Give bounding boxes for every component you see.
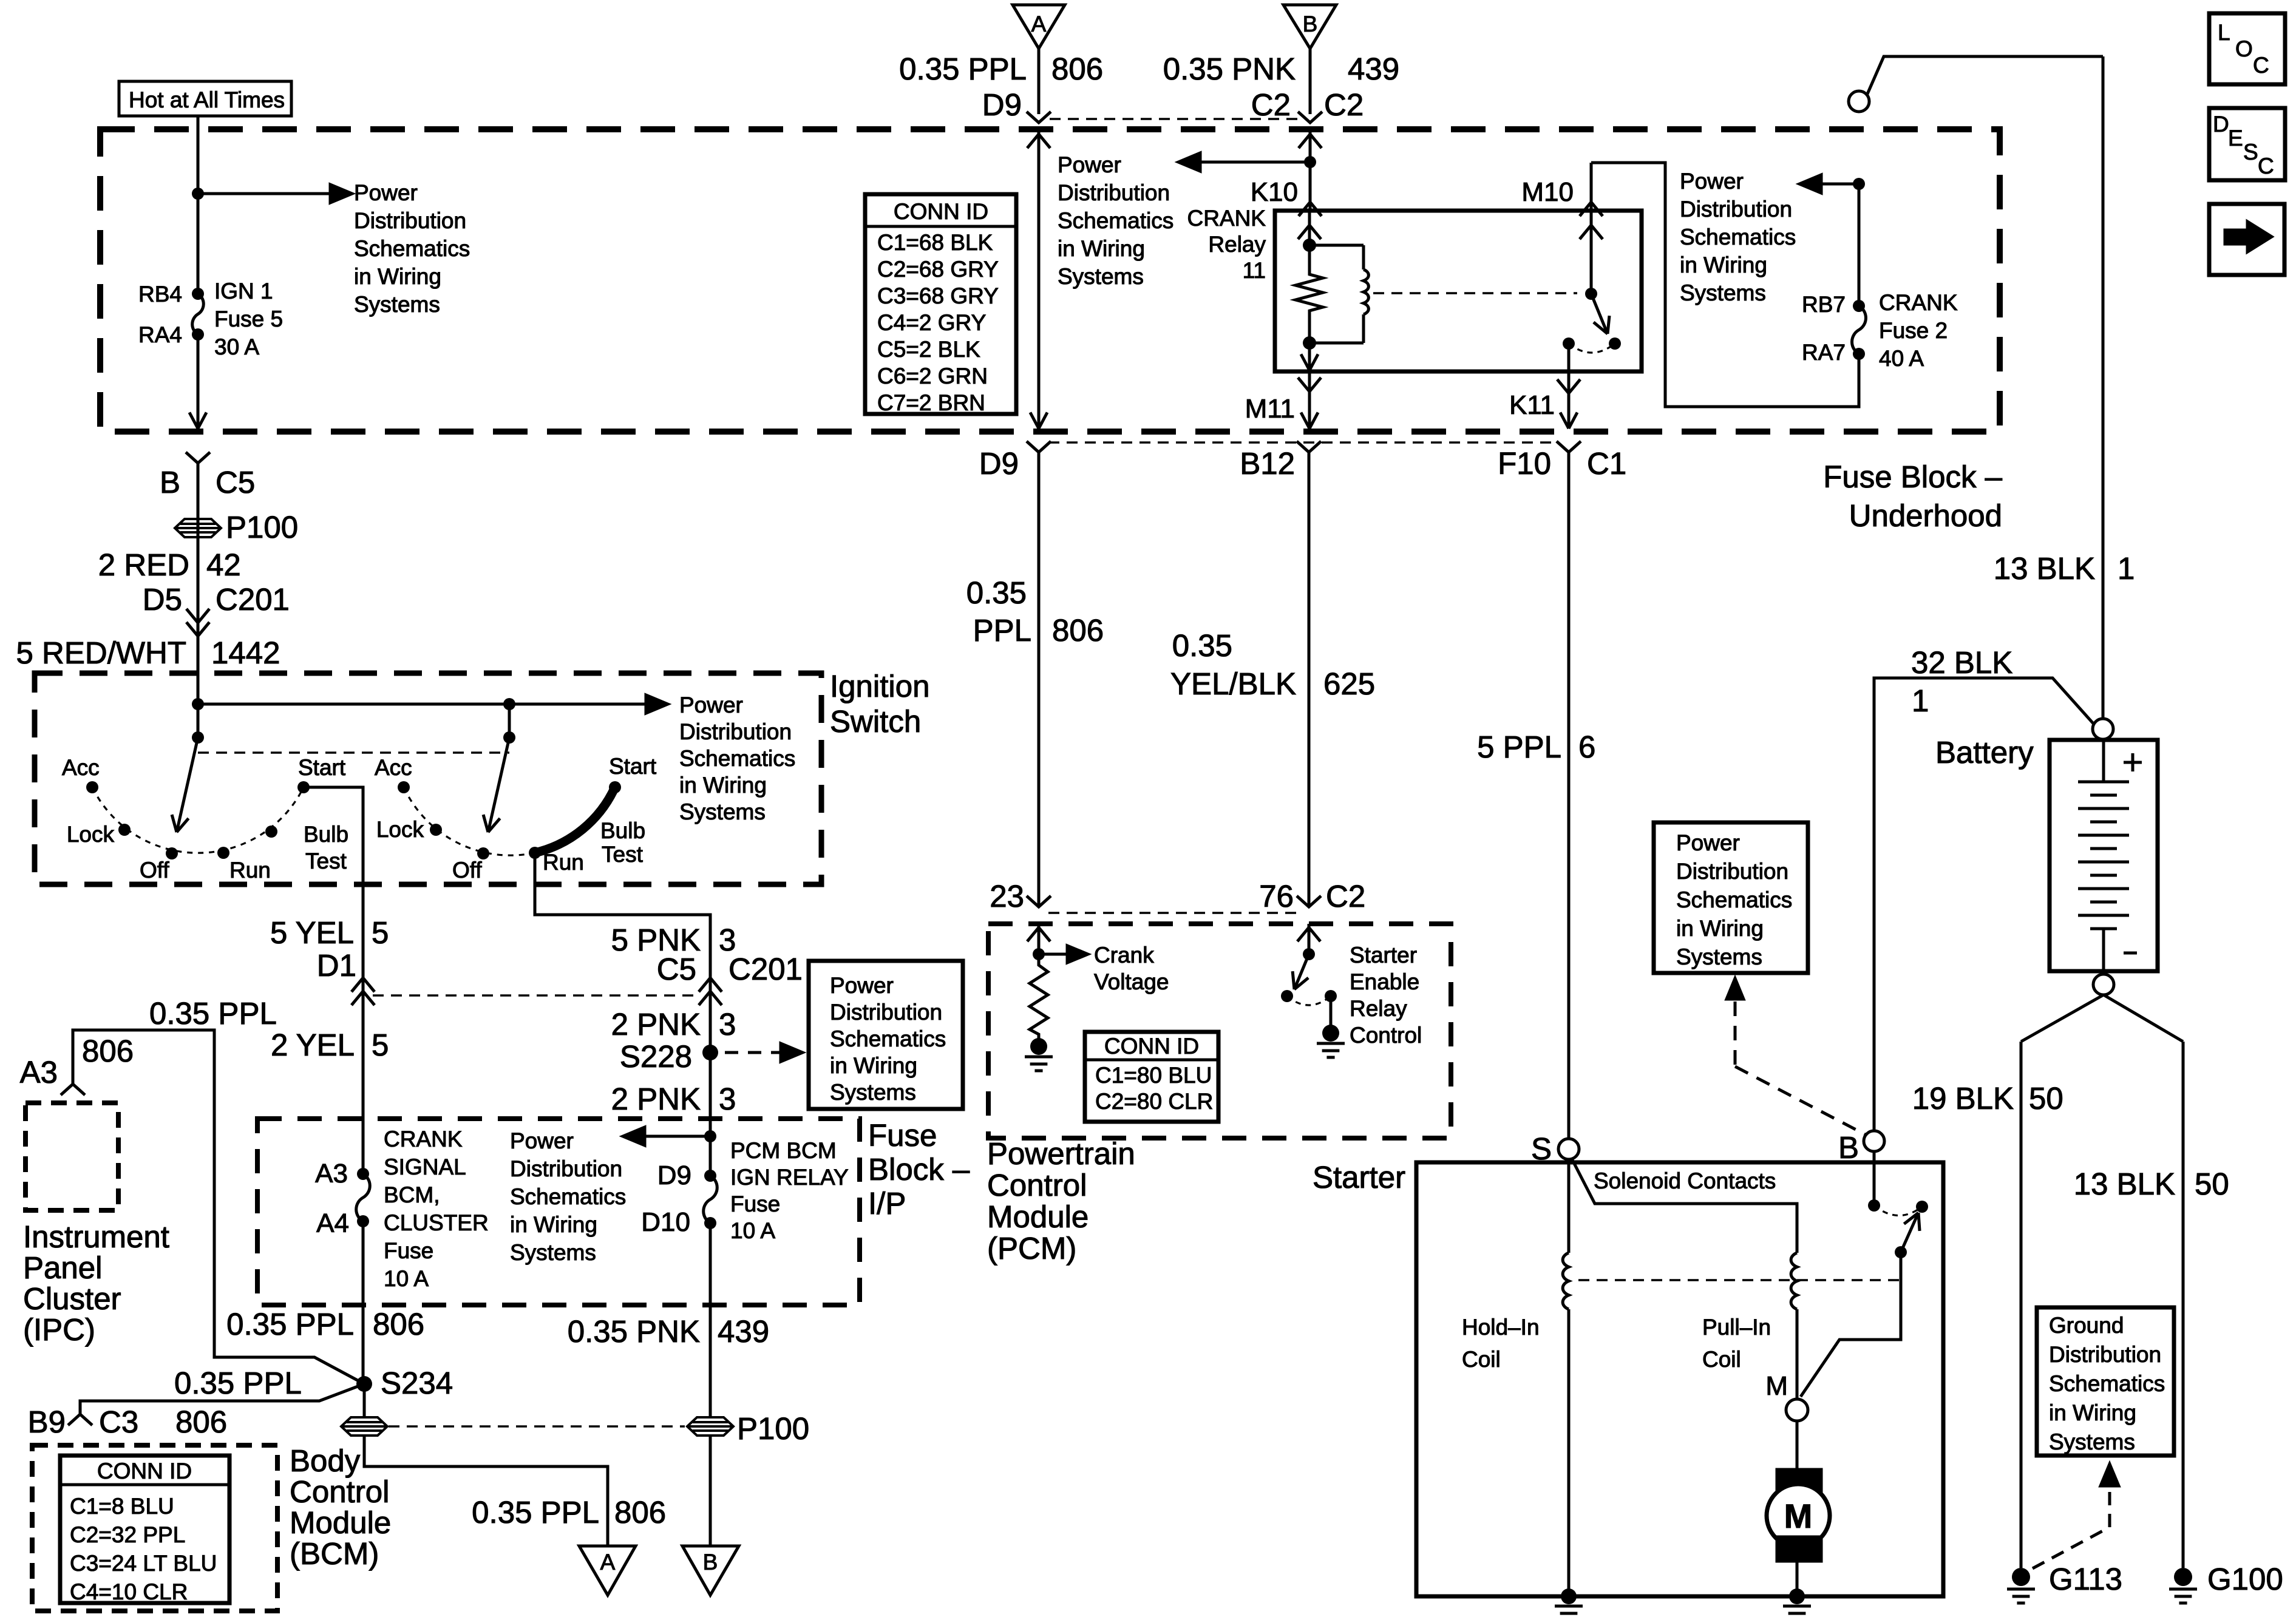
svg-text:CLUSTER: CLUSTER	[384, 1210, 489, 1235]
CONN ID table (underhood fuse block)	[865, 194, 1016, 414]
svg-text:Schematics: Schematics	[510, 1184, 626, 1209]
svg-text:in Wiring: in Wiring	[1680, 253, 1767, 277]
svg-text:5 PPL: 5 PPL	[1477, 730, 1561, 764]
svg-text:Bulb: Bulb	[600, 818, 645, 843]
svg-text:D5: D5	[143, 582, 182, 617]
relay switch pivot + wiper	[1585, 288, 1597, 300]
dashed arrow from S228 to Power Distribution box	[725, 1051, 781, 1054]
ignition switch bank1 contact arc (dashed)	[92, 787, 304, 853]
icon: LOC box	[2209, 13, 2285, 84]
svg-text:S234: S234	[381, 1366, 453, 1400]
svg-text:Powertrain: Powertrain	[987, 1136, 1135, 1171]
svg-text:Start: Start	[609, 754, 657, 779]
junction dot feed rail	[192, 698, 204, 710]
wire: B triangle into fuse block	[1309, 49, 1312, 114]
svg-text:M: M	[1784, 1497, 1813, 1535]
svg-text:C: C	[2253, 53, 2269, 78]
relay coil out wire M11	[1308, 343, 1311, 370]
svg-text:Schematics: Schematics	[1058, 208, 1173, 233]
svg-text:0.35 PNK: 0.35 PNK	[1163, 52, 1296, 86]
svg-text:Fuse: Fuse	[730, 1192, 780, 1216]
svg-text:Relay: Relay	[1208, 232, 1266, 257]
wire: RB7 up to battery feed	[1858, 184, 1861, 306]
svg-text:C3=24 LT BLU: C3=24 LT BLU	[70, 1551, 217, 1576]
svg-text:Hot at All Times: Hot at All Times	[129, 87, 285, 112]
crank voltage junction + arrow	[1033, 948, 1045, 960]
svg-text:RA7: RA7	[1802, 340, 1846, 365]
svg-text:Hold–In: Hold–In	[1462, 1315, 1540, 1340]
svg-text:Power: Power	[830, 973, 894, 998]
mechanical link dashed	[198, 751, 509, 754]
svg-text:B12: B12	[1240, 446, 1295, 481]
svg-text:Bulb: Bulb	[304, 822, 348, 847]
svg-text:13 BLK: 13 BLK	[1994, 551, 2095, 586]
wire: fuse D10 down to P100	[709, 1223, 712, 1417]
IPC pin A3 fork	[61, 1084, 85, 1095]
svg-text:Systems: Systems	[510, 1240, 596, 1265]
wire M10 over to crank fuse	[1591, 163, 1859, 407]
svg-text:11: 11	[1243, 258, 1266, 283]
svg-text:23: 23	[990, 879, 1024, 914]
component box: Ignition Switch (dashed)	[35, 673, 821, 884]
connector C201 dashed link	[373, 994, 698, 997]
svg-text:CONN ID: CONN ID	[894, 199, 988, 224]
svg-text:B9: B9	[28, 1405, 66, 1439]
svg-text:CRANK: CRANK	[384, 1127, 463, 1151]
battery negative terminal	[2093, 974, 2114, 995]
box: Power Distribution Schematics in Wiring Systems (S228)	[809, 961, 963, 1109]
svg-text:50: 50	[2195, 1167, 2229, 1201]
svg-text:Ground: Ground	[2049, 1313, 2124, 1338]
svg-text:Coil: Coil	[1462, 1347, 1501, 1372]
wire to P100	[197, 463, 200, 737]
svg-text:K10: K10	[1251, 177, 1298, 207]
svg-text:Systems: Systems	[679, 799, 766, 824]
svg-text:M11: M11	[1245, 394, 1295, 424]
svg-text:42: 42	[206, 547, 241, 582]
solenoid contact switch	[1873, 1152, 1876, 1205]
svg-text:SIGNAL: SIGNAL	[384, 1154, 466, 1179]
svg-text:A4: A4	[316, 1209, 349, 1238]
svg-text:Lock: Lock	[376, 817, 424, 842]
wire: bank2 Run down and over to PNK column	[535, 853, 710, 1176]
svg-text:806: 806	[1052, 613, 1104, 648]
svg-text:Fuse Block –: Fuse Block –	[1823, 459, 2002, 494]
component box: BCM (dashed)	[32, 1445, 277, 1611]
svg-text:Pull–In: Pull–In	[1702, 1315, 1771, 1340]
svg-text:A: A	[600, 1550, 616, 1575]
svg-text:A3: A3	[315, 1159, 348, 1188]
box label: Hot at All Times	[119, 81, 291, 116]
svg-text:D: D	[2213, 112, 2229, 137]
svg-text:10 A: 10 A	[730, 1218, 775, 1243]
svg-text:2 RED: 2 RED	[98, 547, 189, 582]
PCM internal ground	[1030, 1038, 1047, 1055]
ground G113	[2012, 1568, 2030, 1586]
svg-text:M10: M10	[1521, 177, 1574, 207]
bank2 contacts	[398, 781, 410, 793]
battery plus sign	[2124, 761, 2142, 764]
svg-text:Systems: Systems	[830, 1080, 916, 1105]
wire: F10 to starter S terminal	[1567, 452, 1571, 1139]
svg-text:Distribution: Distribution	[1058, 180, 1170, 205]
svg-text:O: O	[2235, 36, 2253, 61]
wire: battery negative split to grounds	[2021, 995, 2104, 1042]
wire: hot feed into underhood fuse block	[197, 116, 200, 294]
svg-text:Fuse 2: Fuse 2	[1879, 318, 1948, 343]
svg-text:K11: K11	[1509, 390, 1555, 420]
svg-text:C1=68 BLK: C1=68 BLK	[877, 230, 993, 255]
svg-text:1: 1	[1912, 683, 1929, 718]
relay switch output wire K11	[1567, 344, 1571, 371]
component box: CRANK Relay	[1275, 211, 1642, 371]
starter solenoid link dashed	[1578, 1279, 1899, 1281]
svg-text:0.35 PPL: 0.35 PPL	[899, 52, 1027, 86]
svg-text:C201: C201	[729, 952, 803, 986]
svg-text:Cluster: Cluster	[23, 1281, 121, 1316]
svg-text:806: 806	[175, 1405, 227, 1439]
svg-text:3: 3	[719, 1007, 736, 1042]
svg-text:Test: Test	[602, 842, 644, 867]
svg-text:C2: C2	[1326, 879, 1365, 914]
connector dashed link A-B top	[1050, 118, 1299, 120]
svg-text:806: 806	[82, 1034, 134, 1068]
svg-text:806: 806	[373, 1307, 424, 1341]
svg-text:I/P: I/P	[868, 1186, 906, 1221]
component box: Fuse Block - Underhood (dashed)	[100, 129, 2000, 432]
svg-text:Distribution: Distribution	[510, 1156, 622, 1181]
svg-text:Distribution: Distribution	[2049, 1342, 2161, 1367]
svg-text:(PCM): (PCM)	[987, 1231, 1076, 1266]
svg-text:IGN 1: IGN 1	[214, 279, 273, 303]
connector fork at C2 top	[1298, 112, 1322, 123]
svg-text:C3=68 GRY: C3=68 GRY	[877, 283, 999, 308]
svg-text:CRANK: CRANK	[1879, 290, 1958, 315]
svg-text:Run: Run	[543, 850, 584, 875]
connector C5 pin B fork	[186, 452, 210, 463]
junction dot K10 + arrow left	[1304, 156, 1316, 168]
svg-text:Body: Body	[290, 1443, 361, 1478]
fuse F5: IGN 1 Fuse 5 30 A	[192, 288, 204, 300]
svg-text:Crank: Crank	[1094, 943, 1154, 968]
svg-text:5: 5	[372, 1028, 389, 1062]
junction dot + arrow to Power Distribution (I/P)	[704, 1130, 716, 1142]
component box: Battery	[2050, 740, 2158, 971]
svg-text:Power: Power	[1680, 169, 1744, 194]
svg-text:Battery: Battery	[1935, 735, 2034, 770]
svg-text:RA4: RA4	[138, 322, 182, 347]
svg-text:in Wiring: in Wiring	[510, 1212, 597, 1237]
pin B12 fork + label	[1297, 441, 1321, 452]
svg-text:C7=2 BRN: C7=2 BRN	[877, 390, 985, 415]
icon: arrow box	[2209, 204, 2284, 275]
svg-text:D9: D9	[657, 1161, 691, 1190]
svg-text:Power: Power	[1058, 152, 1121, 177]
relay coil	[1309, 244, 1364, 247]
wire: S to pull-in coil	[1572, 1159, 1797, 1253]
svg-text:Test: Test	[305, 849, 347, 873]
ignition switch bank2 contact arc (dashed)	[404, 787, 535, 855]
svg-text:B: B	[1303, 12, 1318, 36]
svg-text:Acc: Acc	[375, 755, 412, 780]
svg-text:C3: C3	[99, 1405, 138, 1439]
svg-text:Power: Power	[510, 1128, 574, 1153]
svg-text:RB4: RB4	[138, 282, 182, 307]
wire: S234 to P100	[363, 1384, 366, 1418]
svg-text:L: L	[2218, 20, 2230, 45]
junction dot + arrow left (underhood)	[1853, 178, 1865, 190]
svg-text:C201: C201	[216, 582, 290, 617]
svg-text:F10: F10	[1498, 446, 1551, 481]
svg-text:in Wiring: in Wiring	[1058, 236, 1145, 261]
CONN ID table (PCM)	[1085, 1032, 1218, 1122]
svg-text:Module: Module	[987, 1199, 1089, 1234]
svg-text:D1: D1	[317, 948, 356, 983]
BCM pin B9 fork	[68, 1414, 92, 1425]
wire: D1 to BCM fuse	[362, 978, 365, 1174]
svg-text:BCM,: BCM,	[384, 1182, 440, 1207]
svg-text:Schematics: Schematics	[1680, 225, 1796, 249]
svg-text:in Wiring: in Wiring	[1676, 916, 1764, 941]
svg-text:Instrument: Instrument	[23, 1219, 169, 1254]
svg-text:Systems: Systems	[1680, 280, 1766, 305]
PCM internal resistor	[1030, 954, 1048, 1039]
wiper pivot dots	[192, 731, 204, 744]
starter M terminal	[1786, 1399, 1808, 1421]
bank2 wiper arrow	[488, 737, 509, 832]
svg-text:2 YEL: 2 YEL	[271, 1028, 355, 1062]
bank1 wiper arrow	[177, 737, 198, 832]
wire: D9 to PCM pin 23	[1038, 452, 1041, 907]
svg-text:0.35 PPL: 0.35 PPL	[226, 1307, 354, 1341]
svg-text:Schematics: Schematics	[1676, 887, 1792, 912]
wire: A triangle to fuse block	[1038, 49, 1041, 114]
svg-text:C2=68 GRY: C2=68 GRY	[877, 257, 999, 282]
starter enable relay control switch	[1303, 948, 1315, 960]
icon: DESC box	[2209, 108, 2285, 180]
relay switch contacts + dashed arc	[1563, 337, 1575, 350]
relay resistor	[1296, 245, 1323, 343]
svg-text:Schematics: Schematics	[2049, 1371, 2165, 1396]
svg-text:Starter: Starter	[1350, 943, 1417, 968]
svg-text:439: 439	[1348, 52, 1399, 86]
svg-text:Systems: Systems	[354, 292, 440, 317]
svg-text:(BCM): (BCM)	[290, 1536, 379, 1571]
svg-text:0.35: 0.35	[1172, 628, 1232, 663]
wire: 32 BLK from battery post to starter B	[1874, 678, 2094, 1130]
svg-text:Coil: Coil	[1702, 1347, 1741, 1372]
svg-text:Fuse: Fuse	[868, 1118, 937, 1153]
hold-in coil	[1563, 1253, 1569, 1309]
relay switch wire from M10	[1590, 163, 1593, 294]
svg-text:B: B	[703, 1550, 718, 1575]
battery internal plates	[2102, 739, 2105, 782]
svg-text:Schematics: Schematics	[679, 746, 795, 771]
svg-text:5 YEL: 5 YEL	[270, 915, 354, 950]
svg-text:Distribution: Distribution	[1680, 197, 1792, 222]
svg-text:C5: C5	[657, 952, 696, 986]
relay actuation dashed link	[1373, 292, 1577, 294]
triangle connector A (bottom)	[579, 1546, 636, 1595]
battery minus sign	[2124, 952, 2137, 955]
terminal circle above fuse block	[1849, 91, 1869, 112]
svg-text:D10: D10	[641, 1207, 690, 1237]
svg-text:G100: G100	[2207, 1562, 2283, 1596]
svg-text:Off: Off	[452, 858, 482, 883]
bank2 thick Run-Start arc	[535, 787, 615, 853]
rail wire to Power Distribution arrow	[198, 703, 646, 706]
svg-text:S228: S228	[620, 1039, 692, 1074]
svg-text:D9: D9	[979, 446, 1019, 481]
svg-text:C1=8 BLU: C1=8 BLU	[70, 1494, 174, 1519]
svg-text:C5=2 BLK: C5=2 BLK	[877, 337, 980, 362]
wire: K10 feed	[1309, 129, 1312, 211]
wire: A4 down to S234	[362, 1221, 365, 1384]
svg-text:Starter: Starter	[1313, 1160, 1405, 1195]
svg-text:in Wiring: in Wiring	[679, 773, 767, 798]
svg-text:C5: C5	[216, 465, 255, 500]
svg-text:Power: Power	[1676, 830, 1740, 855]
svg-text:30 A: 30 A	[214, 334, 259, 359]
svg-text:C4=2 GRY: C4=2 GRY	[877, 310, 986, 335]
svg-text:A: A	[1031, 12, 1047, 36]
svg-text:Block –: Block –	[868, 1152, 970, 1187]
svg-text:Lock: Lock	[67, 822, 115, 847]
wire: M to motor	[1796, 1421, 1799, 1470]
starter B terminal	[1864, 1131, 1884, 1151]
PCM pin 23 input chevron	[1038, 924, 1041, 954]
thin dashed PCM connector line	[1048, 912, 1299, 914]
svg-text:G113: G113	[2049, 1562, 2122, 1596]
svg-text:C2=32 PPL: C2=32 PPL	[70, 1522, 185, 1547]
svg-text:E: E	[2228, 126, 2243, 151]
svg-text:0.35 PNK: 0.35 PNK	[568, 1314, 700, 1349]
svg-text:Systems: Systems	[1676, 944, 1762, 969]
svg-text:C2: C2	[1251, 87, 1291, 122]
wire: hold-in coil to ground	[1567, 1309, 1571, 1596]
svg-text:0.35 PPL: 0.35 PPL	[149, 996, 277, 1031]
connector P100 (bottom left)	[341, 1417, 387, 1436]
svg-text:Fuse: Fuse	[384, 1238, 433, 1263]
fuse: PCM BCM IGN RELAY Fuse 10 A (pins D9/D10)	[704, 1170, 716, 1182]
wire: D9 through fuse block	[1038, 129, 1041, 426]
svg-text:625: 625	[1323, 666, 1375, 701]
svg-text:P100: P100	[737, 1411, 809, 1446]
splice S234	[356, 1376, 372, 1392]
svg-text:Distribution: Distribution	[830, 1000, 942, 1025]
svg-text:0.35 PPL: 0.35 PPL	[472, 1495, 599, 1530]
svg-text:Control: Control	[290, 1474, 389, 1509]
wire: battery positive feed 13 BLK	[1867, 56, 2103, 95]
svg-text:S: S	[2243, 140, 2258, 164]
connector fork at D9 top	[1027, 112, 1051, 123]
svg-text:Fuse 5: Fuse 5	[214, 307, 283, 331]
splice S228	[702, 1045, 718, 1060]
wire: fuse output to connector C5 pin B	[197, 334, 200, 427]
svg-text:Distribution: Distribution	[1676, 859, 1788, 884]
svg-text:RB7: RB7	[1802, 292, 1846, 317]
svg-text:C2: C2	[1324, 87, 1364, 122]
svg-text:C1: C1	[1587, 446, 1626, 481]
wire: IPC pin A3 branch	[73, 1030, 364, 1384]
svg-text:6: 6	[1578, 730, 1595, 764]
pull-in coil	[1791, 1253, 1797, 1309]
svg-text:C4=10 CLR: C4=10 CLR	[70, 1579, 188, 1604]
svg-text:Panel: Panel	[23, 1250, 102, 1285]
component box: Starter	[1416, 1162, 1943, 1596]
triangle connector B (top)	[1283, 5, 1336, 49]
svg-text:CRANK: CRANK	[1187, 206, 1266, 231]
wire: B12 to PCM pin 76	[1308, 452, 1311, 907]
fuse: CRANK SIGNAL BCM CLUSTER Fuse 10 A (pins A3/A4)	[357, 1168, 369, 1180]
pin F10 fork + C1 label	[1557, 441, 1581, 452]
svg-text:B: B	[160, 465, 180, 500]
wire: pull-in coil to M terminal	[1796, 1309, 1799, 1399]
wire: P100 to triangle B (bottom)	[709, 1435, 712, 1546]
svg-text:C2=80 CLR: C2=80 CLR	[1095, 1089, 1213, 1114]
relay coil branch wire	[1308, 211, 1311, 245]
component box: IPC (dashed)	[25, 1103, 118, 1210]
svg-text:Power: Power	[354, 180, 418, 205]
svg-text:P100: P100	[226, 510, 298, 544]
svg-text:2 PNK: 2 PNK	[611, 1082, 701, 1116]
fuse: CRANK Fuse 2 40 A (pins RB7/RA7)	[1853, 300, 1865, 312]
connector fork D9 bottom	[1027, 441, 1051, 452]
triangle connector B (bottom)	[682, 1546, 739, 1595]
wire: motor to ground	[1796, 1561, 1799, 1596]
starter motor	[1777, 1470, 1821, 1494]
svg-text:2 PNK: 2 PNK	[611, 1007, 701, 1042]
svg-text:Underhood: Underhood	[1849, 498, 2002, 533]
battery positive terminal	[2093, 719, 2113, 739]
svg-text:10 A: 10 A	[384, 1266, 429, 1291]
svg-text:Run: Run	[229, 858, 271, 883]
component box: Fuse Block - I/P (dashed)	[257, 1119, 860, 1305]
svg-text:PCM BCM: PCM BCM	[730, 1138, 837, 1163]
starter S terminal	[1558, 1139, 1579, 1159]
svg-text:B: B	[1838, 1130, 1859, 1165]
svg-text:806: 806	[1051, 52, 1103, 86]
box: Power Distribution Schematics in Wiring Systems (starter)	[1654, 822, 1808, 973]
thin dashed connector line C1	[1048, 441, 1558, 444]
svg-text:Start: Start	[298, 755, 346, 780]
wire: BCM pin B9 branch	[80, 1384, 364, 1414]
box: Ground Distribution Schematics in Wiring Systems	[2037, 1307, 2174, 1456]
triangle connector A (top)	[1013, 5, 1065, 49]
connector P100 (bottom right)	[687, 1417, 733, 1436]
svg-text:A3: A3	[20, 1055, 58, 1090]
svg-text:Voltage: Voltage	[1094, 969, 1169, 994]
svg-text:Acc: Acc	[62, 755, 100, 780]
svg-text:C6=2 GRN: C6=2 GRN	[877, 364, 988, 388]
svg-text:Module: Module	[290, 1505, 391, 1540]
svg-text:50: 50	[2029, 1081, 2063, 1116]
svg-text:in Wiring: in Wiring	[830, 1053, 917, 1078]
svg-text:Distribution: Distribution	[679, 719, 792, 744]
svg-text:Systems: Systems	[1058, 264, 1144, 289]
dashed arrow from G113 to ground distribution box	[2033, 1527, 2110, 1568]
dashed arrow from solenoid to power distribution box (starter)	[1727, 978, 1744, 999]
svg-text:Switch: Switch	[830, 704, 921, 739]
svg-text:Off: Off	[140, 858, 169, 883]
junction dot on IGN1 feed	[192, 188, 204, 200]
svg-text:Ignition: Ignition	[830, 669, 929, 703]
svg-text:CONN ID: CONN ID	[97, 1459, 192, 1483]
svg-text:in Wiring: in Wiring	[2049, 1400, 2136, 1425]
svg-text:32 BLK: 32 BLK	[1911, 645, 2012, 680]
svg-text:CONN ID: CONN ID	[1104, 1034, 1199, 1059]
svg-text:S: S	[1531, 1131, 1552, 1166]
